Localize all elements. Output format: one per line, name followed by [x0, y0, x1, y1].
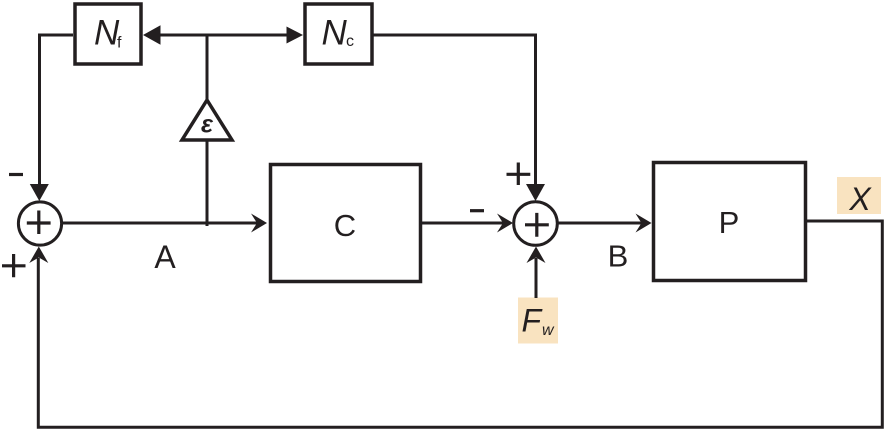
svg-text:N: N: [322, 14, 348, 53]
svg-text:w: w: [542, 322, 555, 339]
svg-text:f: f: [117, 35, 122, 52]
svg-text:F: F: [522, 303, 544, 339]
svg-text:A: A: [154, 239, 176, 275]
svg-text:P: P: [719, 205, 740, 240]
svg-text:B: B: [608, 239, 629, 274]
svg-text:ε: ε: [201, 111, 214, 139]
svg-text:c: c: [346, 33, 354, 50]
svg-text:X: X: [848, 181, 872, 217]
svg-text:C: C: [334, 208, 356, 243]
